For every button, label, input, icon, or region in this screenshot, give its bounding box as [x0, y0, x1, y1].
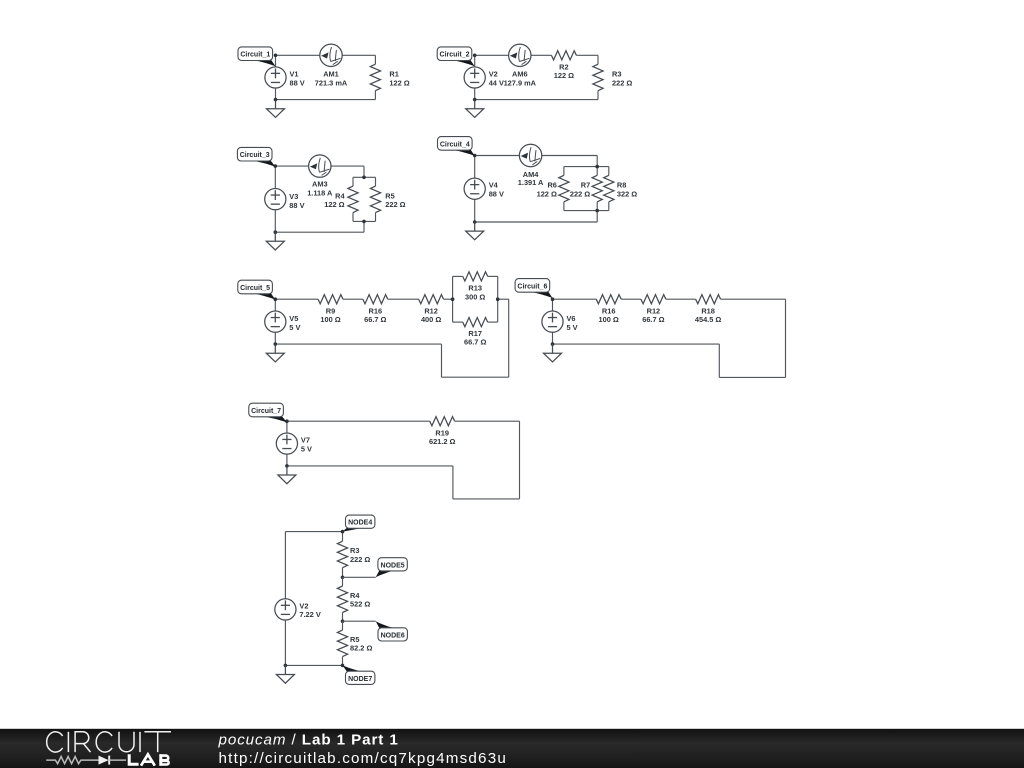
resistor R6 — [559, 175, 569, 202]
svg-text:222 Ω: 222 Ω — [612, 78, 632, 87]
node label flag Circuit_4 — [451, 150, 474, 156]
wire — [274, 166, 276, 188]
resistor R3 — [337, 541, 347, 568]
svg-text:AM3: AM3 — [312, 180, 328, 189]
wire — [666, 298, 696, 300]
svg-text:454.5 Ω: 454.5 Ω — [695, 315, 722, 324]
svg-text:R17: R17 — [468, 329, 482, 338]
svg-text:Circuit_6: Circuit_6 — [517, 283, 547, 290]
wire — [552, 332, 554, 344]
voltage source V4 — [464, 178, 485, 199]
node Circuit_1 — [274, 54, 278, 58]
svg-text:R9: R9 — [326, 306, 335, 315]
svg-text:5 V: 5 V — [301, 444, 312, 453]
wire — [353, 176, 376, 178]
node Circuit_4 — [473, 154, 477, 158]
svg-text:V3: V3 — [289, 192, 298, 201]
wire — [474, 156, 476, 179]
wire — [474, 55, 476, 67]
svg-text:122 Ω: 122 Ω — [324, 200, 344, 209]
wire — [563, 167, 565, 176]
wire — [274, 299, 276, 311]
svg-text:V7: V7 — [301, 436, 310, 445]
wire — [375, 213, 377, 222]
node label flag NODE5 — [376, 570, 396, 577]
resistor R12b — [641, 295, 666, 304]
wire — [596, 202, 598, 211]
node label flag Circuit_1 — [252, 60, 276, 66]
svg-text:pocucam / Lab 1 Part 1: pocucam / Lab 1 Part 1 — [218, 732, 399, 749]
svg-text:322 Ω: 322 Ω — [617, 189, 637, 198]
node Circuit_5 — [274, 297, 278, 301]
wire — [287, 420, 430, 422]
CircuitLab logo word CIRCUIT — [47, 732, 171, 752]
wire — [276, 99, 376, 101]
svg-text:R2: R2 — [559, 62, 568, 71]
junction — [595, 209, 599, 213]
wire — [276, 54, 376, 56]
svg-text:Circuit_1: Circuit_1 — [240, 52, 270, 59]
svg-text:R5: R5 — [350, 635, 359, 644]
wire — [453, 321, 463, 323]
wire — [718, 344, 720, 377]
svg-text:66.7 Ω: 66.7 Ω — [364, 315, 386, 324]
resistor R18 — [696, 295, 721, 304]
svg-text:Circuit_5: Circuit_5 — [240, 285, 270, 292]
wire — [576, 54, 598, 56]
wire — [474, 199, 476, 222]
svg-text:V6: V6 — [567, 314, 576, 323]
svg-text:222 Ω: 222 Ω — [570, 189, 590, 198]
node label flag Circuit_5 — [252, 293, 276, 299]
node label flag NODE4 — [343, 528, 364, 532]
wire — [453, 498, 520, 500]
svg-text:V5: V5 — [289, 314, 298, 323]
wire — [552, 299, 554, 311]
resistor R12 — [419, 295, 444, 304]
svg-text:222 Ω: 222 Ω — [350, 555, 370, 564]
wire — [275, 231, 364, 233]
resistor R19 — [430, 417, 455, 426]
svg-text:AM1: AM1 — [323, 70, 339, 79]
wire — [363, 166, 365, 177]
node label flag Circuit_6 — [529, 292, 553, 298]
svg-text:100 Ω: 100 Ω — [599, 315, 619, 324]
wire — [342, 532, 344, 542]
wire — [275, 165, 364, 167]
svg-text:522 Ω: 522 Ω — [350, 600, 370, 609]
svg-text:88 V: 88 V — [489, 189, 504, 198]
resistor R8 — [604, 175, 614, 202]
ground — [466, 100, 484, 118]
wire — [596, 167, 598, 176]
resistor R5 — [337, 630, 347, 657]
wire — [475, 99, 598, 101]
svg-text:44 V: 44 V — [489, 78, 504, 87]
svg-text:400 Ω: 400 Ω — [421, 315, 441, 324]
svg-text:R6: R6 — [547, 181, 556, 190]
wire — [342, 613, 344, 622]
svg-text:NODE6: NODE6 — [381, 632, 405, 639]
voltage source V7 — [276, 433, 297, 454]
node Circuit_6 — [551, 297, 555, 301]
svg-text:122 Ω: 122 Ω — [554, 71, 574, 80]
ammeter AM4 — [519, 144, 541, 166]
wire — [342, 621, 344, 630]
resistor R1 — [370, 64, 380, 91]
svg-text:AM6: AM6 — [512, 70, 528, 79]
wire — [343, 576, 376, 578]
svg-text:Circuit_2: Circuit_2 — [440, 52, 470, 59]
wire — [475, 54, 552, 56]
node label flag Circuit_3 — [251, 160, 275, 166]
voltage source V3 — [265, 189, 286, 210]
wire — [342, 568, 344, 578]
voltage source V2 — [275, 599, 296, 620]
node NODE6 — [341, 619, 345, 623]
svg-text:R12: R12 — [647, 306, 661, 315]
voltage source V1 — [265, 67, 286, 88]
wire — [453, 275, 463, 277]
junction — [362, 220, 366, 224]
logo diode — [99, 756, 109, 765]
resistor R4 — [337, 586, 347, 613]
wire — [519, 421, 521, 499]
resistor R3 — [593, 64, 603, 91]
svg-text:5 V: 5 V — [567, 323, 578, 332]
wire — [374, 55, 376, 64]
resistor R7 — [592, 175, 602, 202]
node label flag NODE6 — [376, 621, 396, 628]
junction — [595, 165, 599, 169]
junction — [285, 464, 289, 468]
resistor R17 — [463, 318, 488, 327]
wire — [374, 91, 376, 100]
ammeter AM1 — [320, 44, 342, 66]
wire — [475, 221, 598, 223]
junction — [496, 297, 500, 301]
svg-text:http://circuitlab.com/cq7kpg4m: http://circuitlab.com/cq7kpg4msd63u — [219, 750, 508, 767]
wire — [274, 332, 276, 344]
junction — [451, 297, 455, 301]
svg-text:721.3 mA: 721.3 mA — [315, 78, 348, 87]
wire — [284, 620, 286, 665]
wire — [388, 298, 419, 300]
resistor R2 — [551, 51, 576, 60]
junction — [274, 230, 278, 234]
svg-text:V1: V1 — [290, 70, 299, 79]
wire — [342, 657, 344, 666]
resistor R4 — [348, 186, 358, 213]
wire — [553, 343, 720, 345]
wire — [488, 275, 498, 277]
junction — [473, 220, 477, 224]
wire — [275, 88, 277, 100]
svg-text:V2: V2 — [299, 601, 308, 610]
node label flag NODE7 — [343, 665, 364, 671]
voltage source V5 — [265, 311, 286, 332]
svg-text:R18: R18 — [701, 306, 715, 315]
svg-text:88 V: 88 V — [289, 201, 304, 210]
wire — [286, 454, 288, 466]
svg-text:122 Ω: 122 Ω — [389, 78, 409, 87]
svg-text:Circuit_7: Circuit_7 — [251, 408, 281, 415]
voltage source V2 — [464, 67, 485, 88]
wire — [342, 577, 344, 586]
wire — [564, 166, 609, 168]
svg-text:V2: V2 — [489, 70, 498, 79]
wire — [285, 664, 342, 666]
wire — [343, 298, 363, 300]
wire — [441, 344, 443, 377]
wire — [274, 210, 276, 232]
junction — [274, 342, 278, 346]
wire — [508, 299, 510, 377]
svg-text:100 Ω: 100 Ω — [320, 315, 340, 324]
svg-text:R4: R4 — [335, 191, 345, 200]
wire — [286, 421, 288, 433]
wire — [275, 298, 318, 300]
svg-text:NODE4: NODE4 — [348, 520, 372, 527]
wire — [444, 298, 453, 300]
logo resistor-diode squiggle — [46, 757, 98, 764]
svg-text:R1: R1 — [389, 70, 398, 79]
svg-text:1.391 A: 1.391 A — [518, 178, 544, 187]
svg-text:NODE5: NODE5 — [381, 562, 405, 569]
svg-text:7.22 V: 7.22 V — [299, 610, 320, 619]
svg-text:122 Ω: 122 Ω — [537, 189, 557, 198]
wire — [352, 177, 354, 186]
wire — [343, 620, 376, 622]
junction — [551, 342, 555, 346]
svg-text:Circuit_3: Circuit_3 — [240, 152, 270, 159]
svg-text:V4: V4 — [489, 181, 499, 190]
svg-text:R3: R3 — [612, 70, 621, 79]
wire — [275, 343, 441, 345]
svg-text:88 V: 88 V — [290, 78, 305, 87]
svg-text:66.7 Ω: 66.7 Ω — [464, 338, 486, 347]
resistor R5 — [370, 186, 380, 213]
svg-text:82.2 Ω: 82.2 Ω — [350, 644, 372, 653]
wire — [452, 466, 454, 499]
wire — [553, 298, 597, 300]
wire — [497, 276, 499, 322]
junction — [284, 664, 288, 668]
ground — [544, 344, 562, 362]
wire — [488, 321, 498, 323]
wire — [719, 376, 785, 378]
svg-text:621.2 Ω: 621.2 Ω — [429, 437, 456, 446]
wire — [475, 155, 598, 157]
wire — [563, 202, 565, 211]
wire — [363, 221, 365, 232]
node NODE7 junction — [341, 664, 345, 668]
wire — [596, 156, 598, 167]
svg-text:R8: R8 — [617, 181, 626, 190]
junction — [274, 98, 278, 102]
wire — [608, 167, 610, 176]
voltage source V6 — [542, 311, 563, 332]
ground — [466, 222, 484, 240]
svg-text:Circuit_4: Circuit_4 — [440, 141, 470, 148]
svg-text:R5: R5 — [385, 191, 394, 200]
resistor R16b — [596, 295, 621, 304]
resistor R16 — [363, 295, 388, 304]
ammeter AM6 — [509, 44, 531, 66]
wire — [284, 532, 286, 599]
wire — [352, 213, 354, 222]
node Circuit_2 — [473, 54, 477, 58]
resistor R13 — [463, 272, 488, 281]
wire — [452, 276, 454, 322]
svg-text:R19: R19 — [435, 428, 449, 437]
svg-text:300 Ω: 300 Ω — [465, 292, 485, 301]
ground — [266, 232, 284, 250]
svg-text:127.9 mA: 127.9 mA — [504, 78, 537, 87]
wire — [275, 55, 277, 67]
svg-text:66.7 Ω: 66.7 Ω — [642, 315, 664, 324]
wire — [353, 220, 376, 222]
svg-text:R7: R7 — [581, 181, 590, 190]
wire — [285, 531, 342, 533]
svg-text:R16: R16 — [369, 306, 383, 315]
node NODE4 junction — [341, 530, 345, 534]
node label flag Circuit_7 — [263, 416, 287, 422]
wire — [596, 211, 598, 222]
node Circuit_7 — [285, 419, 289, 423]
wire — [498, 298, 509, 300]
ground — [267, 100, 285, 118]
ground — [266, 344, 284, 362]
node NODE5 — [341, 576, 345, 580]
wire — [455, 420, 520, 422]
wire — [442, 376, 509, 378]
svg-text:R3: R3 — [350, 546, 359, 555]
wire — [597, 55, 599, 64]
node label flag Circuit_2 — [451, 60, 475, 66]
svg-text:5 V: 5 V — [289, 323, 300, 332]
svg-text:1.118 A: 1.118 A — [307, 189, 333, 198]
wire — [785, 299, 787, 377]
wire — [474, 88, 476, 100]
svg-text:R16: R16 — [602, 306, 616, 315]
logo word LAB — [129, 754, 168, 765]
ground — [276, 665, 294, 683]
wire — [564, 210, 609, 212]
svg-text:R4: R4 — [350, 591, 360, 600]
footer bar — [0, 729, 1024, 768]
ammeter AM3 — [309, 155, 331, 177]
wire — [597, 91, 599, 100]
resistor R9 — [318, 295, 343, 304]
junction — [362, 176, 366, 180]
svg-text:R12: R12 — [424, 306, 438, 315]
wire — [721, 298, 786, 300]
ground — [278, 466, 296, 484]
svg-text:NODE7: NODE7 — [348, 676, 372, 683]
wire — [287, 465, 453, 467]
wire — [375, 177, 377, 186]
wire — [621, 298, 641, 300]
node Circuit_3 — [274, 164, 278, 168]
svg-text:222 Ω: 222 Ω — [385, 200, 405, 209]
wire — [608, 202, 610, 211]
junction — [473, 98, 477, 102]
